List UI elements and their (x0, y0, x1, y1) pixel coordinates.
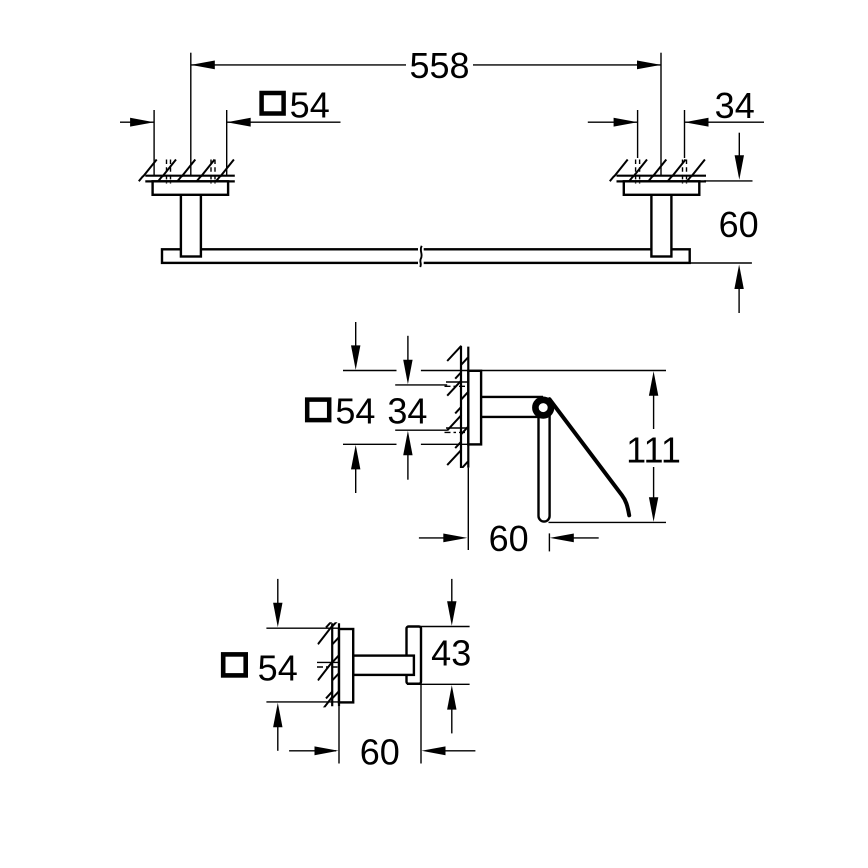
dimension 34 (screw hole spacing) (588, 85, 764, 158)
wall section (middle view) (447, 346, 468, 550)
wall surface right (double line with hatching) (610, 160, 706, 182)
dimension 60 (projection from wall, top view) (690, 133, 759, 313)
wall surface left (double line with hatching) (139, 160, 235, 182)
svg-text:54: 54 (258, 648, 298, 689)
dimension 60 (hook projection) (289, 731, 475, 772)
dimension 34 (screw spacing, side view) (387, 336, 447, 480)
rail break mark (418, 246, 424, 267)
svg-text:558: 558 (409, 45, 469, 86)
right wall plate (624, 181, 700, 195)
dimension 54 (plate width, top view) (120, 85, 341, 176)
svg-text:111: 111 (626, 430, 681, 471)
svg-text:60: 60 (360, 731, 400, 772)
hook screw hole centerline (317, 662, 339, 667)
hook head (407, 627, 422, 684)
paper guide flap (550, 399, 630, 515)
svg-text:54: 54 (335, 391, 375, 432)
hook stem (353, 656, 414, 675)
svg-text:34: 34 (715, 85, 755, 126)
svg-text:54: 54 (290, 85, 330, 126)
towel bar rail (162, 249, 690, 263)
dimension 111 (holder height) (549, 371, 681, 522)
paper holder wall plate (side view) (468, 371, 481, 445)
dimension 54 (plate height, side view) (307, 322, 666, 493)
svg-text:34: 34 (387, 391, 427, 432)
dimension 43 (hook head height) (407, 579, 471, 764)
wall section (hook view) (318, 590, 339, 764)
right plate screw hole centerlines (636, 160, 687, 184)
svg-text:60: 60 (719, 204, 759, 245)
hook wall plate (339, 629, 353, 702)
roll spindle tube (539, 408, 550, 522)
svg-text:43: 43 (431, 633, 471, 674)
screw hole centerlines (paper holder) (445, 382, 469, 432)
dimension 54 (hook plate height) (223, 579, 339, 751)
paper holder arm (481, 397, 543, 417)
right mounting post (651, 195, 671, 257)
left plate screw hole centerlines (167, 160, 216, 184)
dimension 558 (post centre distance) (191, 45, 661, 176)
svg-text:60: 60 (489, 518, 529, 559)
left wall plate (153, 181, 229, 195)
left mounting post (181, 195, 201, 257)
dimension 60 (projection, side view) (419, 518, 599, 559)
pivot pin (535, 400, 551, 416)
